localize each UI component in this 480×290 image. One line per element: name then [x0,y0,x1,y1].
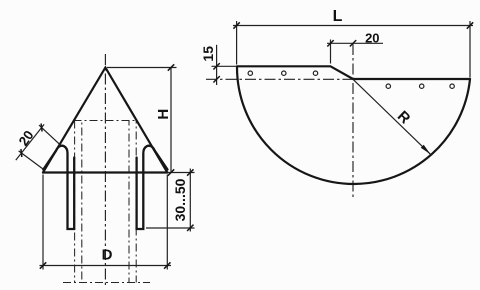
svg-text:H: H [155,109,172,120]
svg-text:D: D [102,247,113,264]
svg-text:15: 15 [200,46,216,62]
svg-text:20: 20 [365,31,379,46]
svg-text:30...50: 30...50 [172,178,188,221]
svg-text:L: L [333,8,343,25]
